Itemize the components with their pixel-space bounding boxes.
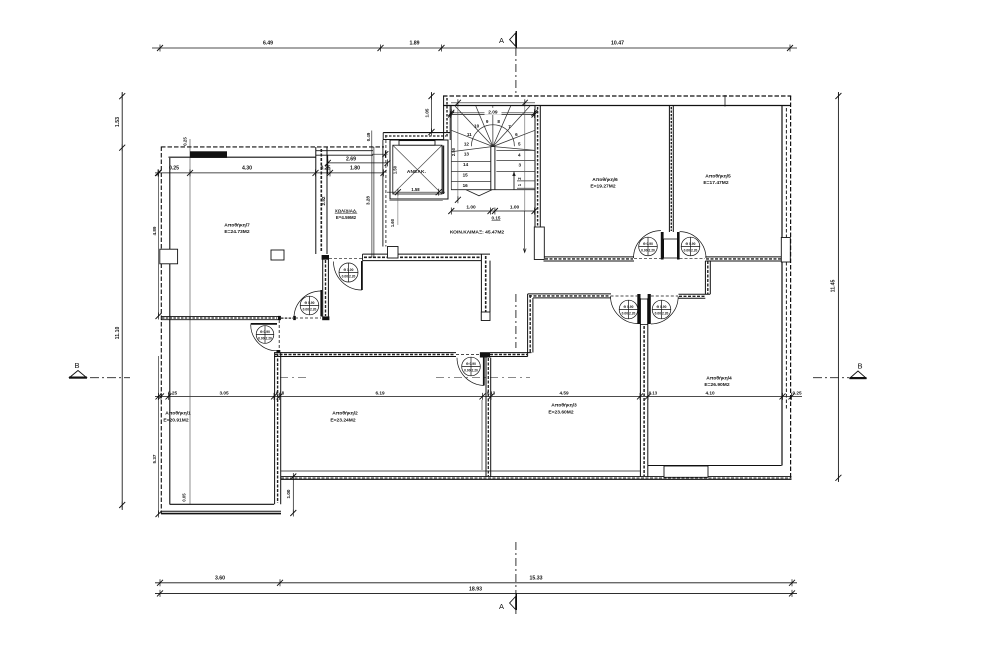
svg-text:1.50: 1.50: [393, 165, 398, 174]
svg-text:1.00: 1.00: [286, 489, 291, 498]
svg-text:3: 3: [519, 163, 522, 168]
svg-text:2.69: 2.69: [346, 156, 356, 162]
svg-text:Θ 0.90: Θ 0.90: [260, 330, 270, 334]
svg-text:8: 8: [497, 119, 500, 124]
svg-text:1.00: 1.00: [466, 205, 476, 211]
svg-text:15.33: 15.33: [530, 576, 543, 582]
svg-text:1.80: 1.80: [350, 166, 360, 172]
svg-text:Θ 0.90: Θ 0.90: [466, 362, 476, 366]
svg-text:A: A: [499, 602, 504, 611]
svg-text:6: 6: [515, 132, 518, 137]
svg-text:2: 2: [517, 177, 522, 180]
svg-text:B: B: [857, 362, 862, 371]
svg-text:E=19.27Μ2: E=19.27Μ2: [590, 183, 615, 189]
svg-text:5: 5: [518, 142, 521, 147]
svg-text:12: 12: [464, 141, 470, 146]
svg-text:4: 4: [518, 153, 521, 158]
svg-text:0.05: 0.05: [182, 493, 187, 502]
svg-text:E=23.24Μ2: E=23.24Μ2: [330, 418, 355, 424]
svg-text:B: B: [74, 361, 79, 370]
svg-text:14: 14: [463, 162, 469, 167]
svg-text:0.00 2.20: 0.00 2.20: [303, 308, 317, 312]
svg-text:10.47: 10.47: [611, 41, 624, 47]
svg-text:18.93: 18.93: [469, 587, 482, 593]
svg-text:0.25: 0.25: [792, 390, 802, 395]
svg-text:3.05: 3.05: [219, 390, 229, 395]
svg-text:Αποθήκη/6: Αποθήκη/6: [592, 177, 618, 183]
svg-text:0.13: 0.13: [649, 390, 658, 395]
svg-text:0.00 2.20: 0.00 2.20: [342, 275, 356, 279]
svg-text:1.58: 1.58: [411, 187, 420, 192]
svg-text:0.00 2.20: 0.00 2.20: [684, 249, 698, 253]
svg-text:E=26.90Μ2: E=26.90Μ2: [704, 382, 729, 388]
svg-text:E=24.73Μ2: E=24.73Μ2: [224, 229, 249, 235]
svg-text:11.10: 11.10: [115, 327, 121, 340]
svg-text:E=4.59Μ2: E=4.59Μ2: [336, 215, 357, 220]
svg-text:10: 10: [474, 124, 480, 129]
svg-text:9: 9: [486, 119, 489, 124]
svg-text:0.00 2.20: 0.00 2.20: [641, 249, 655, 253]
svg-text:0.25: 0.25: [183, 137, 188, 146]
svg-text:0.00 2.20: 0.00 2.20: [655, 312, 669, 316]
svg-text:0.00 2.20: 0.00 2.20: [258, 337, 272, 341]
svg-text:4.30: 4.30: [242, 166, 252, 172]
svg-text:11.45: 11.45: [831, 280, 837, 293]
svg-text:2.09: 2.09: [488, 110, 498, 116]
svg-text:16: 16: [463, 183, 469, 188]
svg-text:4.59: 4.59: [559, 390, 569, 395]
svg-text:7: 7: [508, 124, 511, 129]
svg-text:3.28: 3.28: [366, 196, 371, 205]
svg-text:6.49: 6.49: [263, 41, 273, 47]
svg-text:5.37: 5.37: [152, 454, 157, 463]
svg-text:E=20.91Μ2: E=20.91Μ2: [163, 418, 188, 424]
svg-text:1: 1: [517, 183, 522, 186]
svg-text:0.00 2.20: 0.00 2.20: [464, 369, 478, 373]
svg-text:3.60: 3.60: [215, 576, 225, 582]
svg-text:13: 13: [464, 152, 470, 157]
svg-text:0.00 2.20: 0.00 2.20: [622, 312, 636, 316]
svg-text:ΚΟΙΝ.ΚΛΙΜΑΞ: 45.47Μ2: ΚΟΙΝ.ΚΛΙΜΑΞ: 45.47Μ2: [450, 230, 505, 236]
svg-text:Θ 0.90: Θ 0.90: [657, 305, 667, 309]
svg-text:Αποθήκη/1: Αποθήκη/1: [165, 411, 191, 417]
svg-text:Θ 0.90: Θ 0.90: [624, 305, 634, 309]
svg-text:ΧΩΛ/ΔΙΑΔ.: ΧΩΛ/ΔΙΑΔ.: [335, 209, 358, 214]
svg-text:Θ 0.90: Θ 0.90: [643, 242, 653, 246]
svg-text:6.19: 6.19: [375, 390, 385, 395]
svg-text:ΑΝΕΛΚ.: ΑΝΕΛΚ.: [407, 169, 426, 175]
svg-text:A: A: [499, 36, 504, 45]
svg-text:E=17.47Μ2: E=17.47Μ2: [703, 180, 728, 186]
svg-text:Θ 1.00: Θ 1.00: [344, 268, 354, 272]
svg-text:Θ 0.90: Θ 0.90: [305, 301, 315, 305]
svg-text:1.60: 1.60: [390, 218, 395, 227]
svg-text:E=23.60Μ2: E=23.60Μ2: [548, 410, 573, 416]
svg-text:Αποθήκη/3: Αποθήκη/3: [551, 403, 577, 409]
svg-text:4.10: 4.10: [705, 390, 715, 395]
svg-text:1.05: 1.05: [425, 108, 430, 117]
svg-text:1.89: 1.89: [409, 41, 419, 47]
svg-text:Αποθήκη/2: Αποθήκη/2: [332, 411, 358, 417]
svg-text:Αποθήκη/5: Αποθήκη/5: [705, 174, 731, 180]
svg-text:Αποθήκη/4: Αποθήκη/4: [706, 376, 732, 382]
svg-text:Αποθήκη/7: Αποθήκη/7: [224, 223, 250, 229]
svg-text:0.25: 0.25: [169, 166, 179, 172]
svg-text:Θ 0.90: Θ 0.90: [686, 242, 696, 246]
svg-text:15: 15: [463, 173, 469, 178]
svg-text:0.49: 0.49: [366, 132, 371, 141]
svg-text:4.89: 4.89: [152, 226, 157, 235]
svg-text:1.53: 1.53: [115, 117, 121, 127]
svg-text:0.15: 0.15: [492, 215, 501, 220]
svg-text:1.00: 1.00: [510, 205, 520, 211]
svg-text:11: 11: [467, 132, 472, 137]
